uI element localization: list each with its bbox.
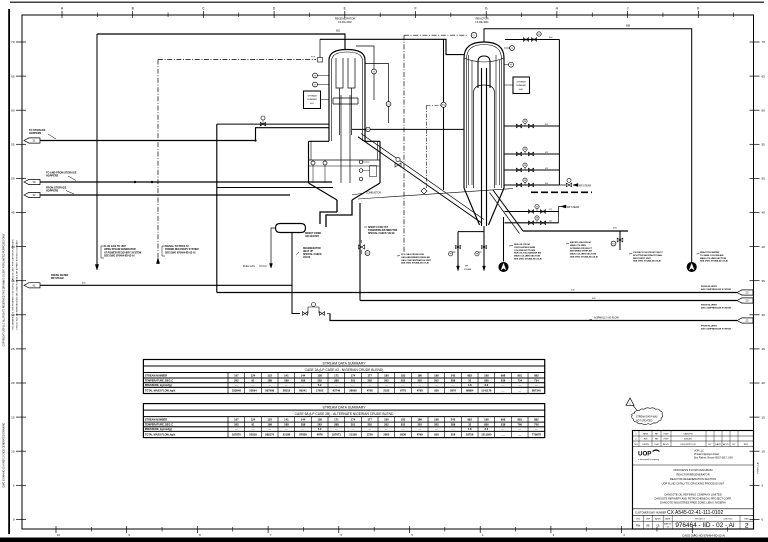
svg-text:4798: 4798	[417, 433, 423, 437]
svg-text:PROJECT: PROJECT	[695, 519, 705, 521]
wire spent standpipe to par oil connector	[503, 217, 505, 262]
svg-text:698: 698	[501, 417, 506, 421]
svg-text:202: 202	[401, 423, 406, 427]
svg-text:887345: 887345	[532, 389, 541, 393]
instrument PC on reactor overhead	[404, 34, 468, 36]
valve station row 4	[504, 184, 559, 186]
svg-text:881: 881	[517, 417, 522, 421]
svg-text:202: 202	[317, 378, 322, 382]
revision triangle 1	[626, 398, 634, 405]
svg-text:CAH2PM: CAH2PM	[683, 433, 692, 436]
svg-text:CE: CE	[656, 524, 660, 527]
svg-text:FUEL GAS: FUEL GAS	[243, 265, 255, 268]
wire stripper bottoms line	[523, 230, 628, 232]
svg-text:15: 15	[762, 415, 766, 419]
svg-text:DSP: DSP	[646, 519, 651, 521]
svg-text:198: 198	[434, 417, 439, 421]
svg-text:133: 133	[267, 417, 272, 421]
valve spent catalyst PC	[359, 245, 365, 249]
svg-text:183848: 183848	[232, 389, 241, 393]
svg-text:....: ....	[435, 384, 438, 387]
svg-text:976464 - IID - 02 - AI: 976464 - IID - 02 - AI	[675, 522, 735, 529]
svg-text:CASE 2A (LP CASE #3 - NIGERIAN: CASE 2A (LP CASE #3 - NIGERIAN CRUDE BLE…	[305, 368, 384, 372]
svg-text:CUSTOMER DWG NUMBER: CUSTOMER DWG NUMBER	[635, 511, 666, 514]
regenerator air grid	[309, 159, 381, 161]
svg-text:J: J	[627, 7, 629, 11]
svg-text:THIS DRAWING IS THE PROPERTY O: THIS DRAWING IS THE PROPERTY OF UOP LLC …	[12, 239, 15, 331]
wire catalyst line b	[40, 194, 290, 196]
svg-text:....: ....	[518, 384, 521, 387]
svg-text:MP STEAM: MP STEAM	[567, 206, 579, 209]
svg-text:86241: 86241	[299, 389, 307, 393]
wire dilute phase transfer line	[358, 189, 513, 200]
instrument PIC on reactor left	[441, 102, 446, 107]
svg-text:PRESSURE, kg/cm2(g): PRESSURE, kg/cm2(g)	[145, 428, 172, 431]
svg-text:124: 124	[251, 373, 256, 377]
svg-text:....: ....	[302, 384, 305, 387]
svg-text:65: 65	[11, 74, 15, 78]
wire standpipe header vertical	[216, 124, 218, 292]
flag fresh water	[24, 283, 40, 288]
instrument TI regenerator left	[313, 82, 318, 87]
flag air line right 2	[737, 298, 753, 303]
svg-text:538: 538	[501, 378, 506, 382]
valve station row 5	[505, 211, 559, 213]
wire catalyst line to storage hoppers	[40, 128, 329, 141]
air heater drum	[276, 224, 306, 233]
svg-text:DWG NO: DWG NO	[724, 519, 733, 521]
svg-text:45: 45	[762, 211, 766, 215]
pipe regenerated catalyst standpipe diagonal	[358, 137, 481, 223]
svg-text:STREAM NUMBER: STREAM NUMBER	[145, 418, 167, 421]
wire fresh water line	[40, 284, 292, 286]
svg-text:158: 158	[317, 373, 322, 377]
flag air line right 3	[737, 318, 753, 323]
valve station row 3	[504, 169, 559, 171]
svg-text:171: 171	[334, 417, 339, 421]
svg-text:10: 10	[11, 449, 15, 453]
svg-text:611: 611	[545, 124, 548, 126]
revision table	[633, 435, 754, 437]
svg-text:F: F	[414, 7, 416, 11]
svg-text:698: 698	[501, 373, 506, 377]
svg-text:....: ....	[518, 434, 521, 437]
regenerator internal combustor tube	[333, 95, 358, 183]
regenerator air nozzles right	[359, 160, 363, 164]
right ruler ticks and numbers	[750, 41, 760, 43]
svg-text:DANGOTE REFINERY AND PETROCHEM: DANGOTE REFINERY AND PETROCHEMICAL PROJE…	[655, 497, 732, 501]
instrument PI reactor right	[509, 62, 514, 67]
svg-text:201: 201	[351, 378, 356, 382]
svg-text:288: 288	[334, 378, 339, 382]
vessel regenerator lower shell	[309, 141, 381, 183]
svg-text:936: 936	[484, 423, 489, 427]
svg-text:....: ....	[368, 384, 371, 387]
svg-text:202: 202	[384, 378, 389, 382]
svg-text:33: 33	[468, 378, 471, 382]
svg-text:NUMBER: NUMBER	[307, 99, 317, 101]
svg-text:760: 760	[517, 423, 522, 427]
wire third air header normally no flow	[292, 232, 300, 314]
svg-text:STREAM: STREAM	[307, 95, 316, 98]
svg-text:602: 602	[336, 30, 341, 33]
svg-text:25 East Algonquin Road: 25 East Algonquin Road	[694, 453, 719, 456]
svg-text:198: 198	[484, 417, 489, 421]
svg-text:288: 288	[451, 423, 456, 427]
svg-text:698: 698	[626, 25, 631, 28]
svg-text:50: 50	[762, 177, 766, 181]
wire catalyst line a	[40, 181, 332, 183]
svg-text:756: 756	[534, 423, 539, 427]
svg-text:....: ....	[252, 428, 255, 431]
svg-text:33: 33	[468, 423, 471, 427]
svg-text:....: ....	[418, 384, 421, 387]
svg-text:40: 40	[762, 245, 766, 249]
svg-text:1726: 1726	[367, 433, 373, 437]
svg-text:734: 734	[534, 378, 539, 382]
svg-text:DANGOTE OIL REFINING COMPANY L: DANGOTE OIL REFINING COMPANY LIMITED	[664, 492, 721, 496]
svg-text:124: 124	[251, 417, 256, 421]
top ruler ticks and letters	[61, 11, 63, 18]
svg-text:PCE: PCE	[311, 57, 316, 59]
svg-text:9776: 9776	[400, 389, 406, 393]
svg-text:983: 983	[467, 417, 472, 421]
connector par oil from main column	[499, 262, 508, 271]
vessel reactor dome ellipse	[464, 58, 504, 62]
svg-text:....: ....	[352, 384, 355, 387]
wire riser stripping steam vertical 1	[457, 232, 459, 271]
svg-text:28695: 28695	[349, 389, 357, 393]
regenerator standpipe	[337, 200, 352, 212]
svg-text:....: ....	[285, 428, 288, 431]
svg-text:2: 2	[745, 523, 749, 530]
revision cloud note	[632, 408, 663, 425]
stream number 600 box	[513, 77, 530, 94]
svg-text:APVD: APVD	[663, 443, 669, 446]
svg-text:180: 180	[384, 373, 389, 377]
svg-text:70: 70	[11, 40, 15, 44]
svg-text:187871: 187871	[332, 433, 341, 437]
svg-text:STEAM: STEAM	[464, 268, 471, 271]
svg-text:REACTOR: REACTOR	[475, 17, 488, 21]
svg-text:198: 198	[484, 373, 489, 377]
svg-text:881: 881	[517, 373, 522, 377]
svg-text:....: ....	[402, 384, 405, 387]
svg-text:....: ....	[535, 384, 538, 387]
valve station row 2	[504, 153, 559, 155]
svg-text:588176: 588176	[265, 433, 274, 437]
svg-text:70: 70	[762, 40, 766, 44]
svg-text:....: ....	[502, 428, 505, 431]
wire spent catalyst standpipe vertical	[359, 203, 361, 298]
pipe spent catalyst standpipe diagonal	[493, 190, 523, 231]
svg-text:1211295: 1211295	[481, 433, 492, 437]
svg-text:APVD: APVD	[655, 518, 661, 521]
svg-text:186: 186	[417, 417, 422, 421]
svg-text:5.2: 5.2	[318, 383, 322, 387]
svg-text:TEMPERATURE, DEG C: TEMPERATURE, DEG C	[145, 379, 173, 382]
svg-text:35: 35	[762, 279, 766, 283]
stream data summary table case 6A	[143, 404, 544, 438]
svg-text:188: 188	[267, 378, 272, 382]
svg-text:1.8: 1.8	[468, 383, 472, 387]
wire regenerator overhead to reactor line	[320, 39, 464, 54]
reactor overhead vapor line 698	[484, 29, 692, 263]
svg-text:10: 10	[762, 449, 766, 453]
svg-text:258: 258	[451, 433, 456, 437]
svg-text:202: 202	[401, 378, 406, 382]
svg-text:....: ....	[352, 428, 355, 431]
svg-text:....: ....	[335, 428, 338, 431]
regenerator air distributor nozzles left	[311, 161, 315, 165]
svg-text:202: 202	[367, 378, 372, 382]
svg-text:612: 612	[545, 152, 548, 154]
svg-text:201: 201	[351, 423, 356, 427]
svg-text:CADD DWG NO 976464-IID-02-AI: CADD DWG NO 976464-IID-02-AI	[682, 533, 725, 537]
svg-text:188: 188	[301, 378, 306, 382]
svg-text:CASE 6A (LP CASE 2B) - ALTERNA: CASE 6A (LP CASE 2B) - ALTERNATE NIGERIA…	[295, 412, 394, 416]
svg-text:....: ....	[418, 428, 421, 431]
svg-text:21358: 21358	[349, 433, 357, 437]
svg-text:NORMALLY NO FLOW: NORMALLY NO FLOW	[594, 316, 619, 319]
svg-text:IT MUST NOT BE REPRODUCED OR U: IT MUST NOT BE REPRODUCED OR USED IN WHO…	[16, 239, 19, 330]
svg-text:202: 202	[234, 378, 239, 382]
svg-text:83748: 83748	[333, 389, 341, 393]
svg-text:UOP FLUID CATALYTIC CRACKING P: UOP FLUID CATALYTIC CRACKING PROCESS UNI…	[662, 482, 725, 486]
svg-text:202: 202	[434, 378, 439, 382]
reactor stripper cone	[464, 188, 504, 225]
outer top edge line	[10, 1, 764, 3]
svg-text:734: 734	[517, 378, 522, 382]
bottom ruler ticks and numbers	[55, 526, 57, 533]
svg-text:53818: 53818	[249, 433, 257, 437]
svg-text:2.2: 2.2	[484, 383, 488, 387]
node junction on catalyst line a	[134, 181, 136, 183]
valve station row 1	[504, 125, 559, 127]
svg-text:91: 91	[252, 423, 255, 427]
svg-text:DESCRIPTION: DESCRIPTION	[681, 444, 696, 446]
signal line dash-dot vertical	[157, 60, 159, 265]
svg-text:....: ....	[452, 428, 455, 431]
svg-text:613: 613	[545, 168, 548, 170]
svg-text:PROCESS FLOW DIAGRAM: PROCESS FLOW DIAGRAM	[673, 468, 713, 472]
svg-text:....: ....	[402, 428, 405, 431]
stream number 602 box	[304, 91, 321, 109]
svg-text:DANGOTE INDUSTRIES FREE ZONE,: DANGOTE INDUSTRIES FREE ZONE, LEKKI, NIG…	[660, 501, 726, 505]
svg-text:25: 25	[762, 347, 766, 351]
svg-text:25: 25	[11, 347, 15, 351]
svg-text:Des Plaines, Illinois 60017-50: Des Plaines, Illinois 60017-5017, USA	[694, 457, 733, 460]
svg-text:18758: 18758	[466, 433, 474, 437]
svg-text:STREAM NUMBER: STREAM NUMBER	[145, 374, 167, 377]
svg-text:....: ....	[518, 390, 521, 393]
wire flue gas 602 line	[97, 34, 345, 50]
svg-text:1.8: 1.8	[468, 427, 472, 431]
svg-text:188: 188	[301, 423, 306, 427]
svg-text:45: 45	[11, 211, 15, 215]
svg-text:4768: 4768	[367, 389, 373, 393]
svg-text:202: 202	[234, 423, 239, 427]
reactor riser	[481, 68, 483, 226]
svg-text:P-REV-2-AI: P-REV-2-AI	[757, 462, 760, 474]
svg-text:144: 144	[301, 417, 306, 421]
svg-text:DATE: DATE	[715, 443, 721, 446]
instrument PI flue gas right	[365, 64, 389, 123]
svg-text:FF-RE-4001: FF-RE-4001	[475, 21, 489, 24]
node junction catalyst line	[255, 140, 257, 142]
svg-text:....: ....	[285, 384, 288, 387]
instrument diamond on transfer	[421, 188, 427, 194]
svg-text:2185: 2185	[383, 389, 389, 393]
stream data summary table case 2A	[143, 360, 544, 394]
svg-text:DRWN: DRWN	[642, 444, 649, 446]
wire reactor stripping steam line top	[505, 39, 559, 41]
svg-text:187876: 187876	[232, 433, 241, 437]
wire mp steam branch rows 5-6	[559, 207, 561, 223]
signal line dash-dot horizontal to regenerator	[158, 59, 316, 61]
svg-text:188: 188	[284, 378, 289, 382]
svg-text:87858: 87858	[299, 433, 307, 437]
svg-text:10: 10	[57, 533, 61, 537]
svg-text:....: ....	[502, 390, 505, 393]
svg-text:133: 133	[267, 373, 272, 377]
svg-text:242: 242	[451, 373, 456, 377]
svg-text:REACTOR REGENERATION SECTION: REACTOR REGENERATION SECTION	[670, 477, 716, 481]
svg-text:22188: 22188	[283, 433, 291, 437]
svg-text:NOT UPDATED: NOT UPDATED	[636, 420, 653, 423]
svg-text:....: ....	[368, 428, 371, 431]
svg-text:141: 141	[284, 373, 289, 377]
svg-text:REV: REV	[744, 444, 749, 446]
svg-text:211: 211	[549, 209, 552, 211]
svg-text:NUMBER: NUMBER	[516, 85, 526, 87]
svg-text:....: ....	[252, 384, 255, 387]
svg-text:183: 183	[401, 373, 406, 377]
wire riser stripping steam vertical 2	[483, 226, 485, 271]
svg-text:a honeywell company: a honeywell company	[638, 459, 660, 461]
heavy dashed structure line	[531, 191, 592, 193]
left ruler ticks and numbers	[16, 41, 26, 43]
wire regen to reactor line mid	[352, 128, 464, 130]
svg-text:....: ....	[502, 434, 505, 437]
svg-text:107: 107	[234, 373, 239, 377]
svg-text:180: 180	[384, 417, 389, 421]
svg-text:171: 171	[334, 373, 339, 377]
svg-text:202: 202	[367, 423, 372, 427]
svg-text:STREAM DATA SUMMARY: STREAM DATA SUMMARY	[323, 406, 367, 410]
wire mp steam branch row 4	[559, 184, 566, 186]
svg-text:68884: 68884	[466, 389, 474, 393]
flag from storage hoppers	[24, 192, 40, 197]
reactor riser termination device	[478, 56, 490, 88]
svg-text:141: 141	[284, 417, 289, 421]
svg-text:28518: 28518	[283, 389, 291, 393]
svg-text:TOTAL MASS FLOW, kg/h: TOTAL MASS FLOW, kg/h	[145, 390, 176, 393]
svg-text:CHK: CHK	[654, 444, 659, 446]
svg-text:NO: NO	[634, 444, 638, 446]
svg-text:PWF: PWF	[664, 434, 670, 436]
svg-text:4876: 4876	[317, 433, 323, 437]
svg-text:55: 55	[11, 143, 15, 147]
flag air line right 1	[737, 290, 753, 295]
svg-text:TEMPERATURE, DEG C: TEMPERATURE, DEG C	[145, 424, 173, 427]
svg-text:938: 938	[434, 433, 439, 437]
valve station row 6	[505, 222, 559, 224]
svg-text:9356: 9356	[400, 433, 406, 437]
valve station on third header	[302, 312, 307, 316]
svg-text:....: ....	[268, 384, 271, 387]
svg-text:5.2: 5.2	[318, 427, 322, 431]
svg-text:....: ....	[235, 428, 238, 431]
svg-text:30: 30	[762, 313, 766, 317]
svg-text:....: ....	[235, 384, 238, 387]
svg-text:....: ....	[518, 428, 521, 431]
valves on steam line top	[523, 38, 528, 42]
svg-text:202: 202	[417, 423, 422, 427]
svg-text:DATE: DATE	[665, 518, 671, 521]
svg-text:APVD: APVD	[723, 443, 729, 446]
svg-text:2865: 2865	[383, 433, 389, 437]
svg-text:LPG: LPG	[636, 519, 641, 521]
svg-text:1141176: 1141176	[481, 389, 492, 393]
svg-text:779878: 779878	[532, 433, 541, 437]
svg-text:MP STEAM: MP STEAM	[579, 185, 591, 188]
svg-text:2.2: 2.2	[484, 427, 488, 431]
svg-text:202: 202	[384, 423, 389, 427]
reactor internal cyclone left	[469, 55, 473, 185]
signal to PIC dash-dot	[427, 105, 441, 107]
instrument PI regenerator left upper	[313, 73, 318, 78]
svg-text:....: ....	[335, 384, 338, 387]
svg-text:288: 288	[334, 423, 339, 427]
customer dwg number row	[633, 508, 754, 510]
flag to and from storage hoppers	[24, 179, 40, 184]
svg-text:936: 936	[484, 378, 489, 382]
wire flue gas downcomer to note	[96, 34, 98, 266]
wire catalyst line c	[217, 187, 333, 189]
svg-text:G: G	[485, 7, 488, 11]
svg-text:65: 65	[762, 74, 766, 78]
svg-text:882: 882	[534, 417, 539, 421]
svg-text:COMBUSTOR: COMBUSTOR	[366, 193, 381, 195]
svg-text:RE: RE	[655, 439, 659, 441]
wire regenerator withdrawal line upper	[217, 123, 329, 125]
title block outline	[633, 431, 754, 530]
svg-text:177: 177	[367, 373, 372, 377]
svg-text:RE: RE	[655, 434, 659, 436]
svg-text:183: 183	[401, 417, 406, 421]
instrument PIs flue gas	[356, 46, 374, 100]
svg-text:158: 158	[317, 417, 322, 421]
svg-text:882: 882	[534, 373, 539, 377]
svg-text:STREAM DATA SUMMARY: STREAM DATA SUMMARY	[323, 361, 367, 365]
svg-text:FF-RG-4002: FF-RG-4002	[338, 21, 352, 24]
svg-text:2876: 2876	[450, 389, 456, 393]
svg-text:60: 60	[762, 108, 766, 112]
svg-text:144: 144	[301, 373, 306, 377]
svg-text:198: 198	[434, 373, 439, 377]
reactor internal bell	[474, 85, 495, 188]
reactor internal cyclone right	[496, 55, 500, 185]
svg-text:PWF: PWF	[664, 439, 670, 441]
svg-text:17652: 17652	[316, 389, 324, 393]
regenerator internal cyclones	[336, 58, 343, 135]
svg-text:PRESSURE, kg/cm2(g): PRESSURE, kg/cm2(g)	[145, 384, 172, 387]
svg-text:198: 198	[267, 423, 272, 427]
wire fuel gas line	[271, 228, 276, 268]
svg-text:107: 107	[234, 417, 239, 421]
svg-text:60: 60	[11, 108, 15, 112]
